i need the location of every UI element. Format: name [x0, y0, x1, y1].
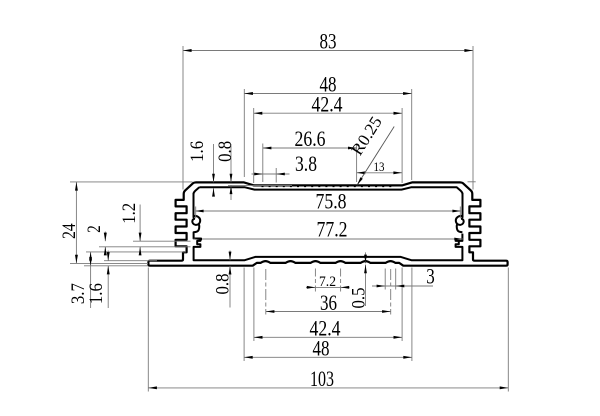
- dimension 3.7: [90, 252, 92, 308]
- svg-text:3.8: 3.8: [295, 151, 317, 176]
- svg-text:77.2: 77.2: [317, 216, 348, 241]
- svg-text:36: 36: [320, 290, 337, 315]
- dimension 0.8 bottom: [229, 251, 231, 261]
- dimension 48: [244, 93, 411, 95]
- svg-text:103: 103: [310, 366, 334, 391]
- dimension 1.6 top: [213, 144, 215, 182]
- extension lines left side: [70, 181, 193, 183]
- svg-text:42.4: 42.4: [312, 91, 343, 116]
- dimension 83: [183, 50, 473, 52]
- extension stubs at 75.8 arrows: [195, 207, 197, 219]
- leader R0.25: [357, 127, 394, 186]
- svg-text:2: 2: [84, 225, 105, 233]
- dimension 3: [372, 285, 433, 287]
- inner cavity outline with screw bosses and PCB tabs: [192, 187, 463, 260]
- extension lines top: [182, 46, 184, 190]
- svg-text:R0.25: R0.25: [347, 113, 386, 159]
- svg-text:75.8: 75.8: [316, 188, 347, 213]
- extrusion profile outer outline: [148, 182, 328, 265]
- svg-text:7.2: 7.2: [319, 274, 336, 290]
- dimension 42.4: [254, 112, 402, 114]
- dimension 42.4: [254, 336, 402, 338]
- svg-text:0.8: 0.8: [215, 141, 236, 162]
- dimension 48: [244, 356, 412, 358]
- dimension 36: [266, 311, 391, 313]
- dimension 3.8: [252, 173, 290, 175]
- knurl dashes on lid slot surface: [262, 185, 396, 187]
- dimension 0.8 top: [228, 184, 292, 186]
- dimension 26.6: [263, 147, 357, 149]
- svg-text:0.5: 0.5: [349, 288, 370, 309]
- dimension 7.2: [306, 286, 350, 288]
- extension lines bottom: [147, 268, 149, 392]
- svg-text:13: 13: [374, 159, 385, 174]
- svg-text:26.6: 26.6: [295, 126, 326, 151]
- dimension 2: [104, 232, 106, 242]
- dimension 13: [357, 172, 402, 174]
- dimension 24: [75, 182, 77, 263]
- dimension 75.8: [195, 210, 461, 212]
- svg-text:1.2: 1.2: [119, 203, 140, 224]
- svg-text:1.6: 1.6: [86, 283, 107, 304]
- dimension 1.2: [139, 205, 141, 242]
- svg-text:83: 83: [320, 29, 337, 54]
- svg-text:0.8: 0.8: [213, 274, 234, 295]
- dimension 1.6 bottom: [107, 251, 109, 261]
- dimension 0.5: [365, 252, 367, 263]
- svg-text:48: 48: [313, 336, 330, 361]
- svg-text:3: 3: [426, 264, 435, 289]
- svg-text:1.6: 1.6: [187, 141, 208, 162]
- dimension 103: [148, 387, 508, 389]
- dimension 77.2: [193, 238, 463, 240]
- svg-text:24: 24: [59, 223, 80, 239]
